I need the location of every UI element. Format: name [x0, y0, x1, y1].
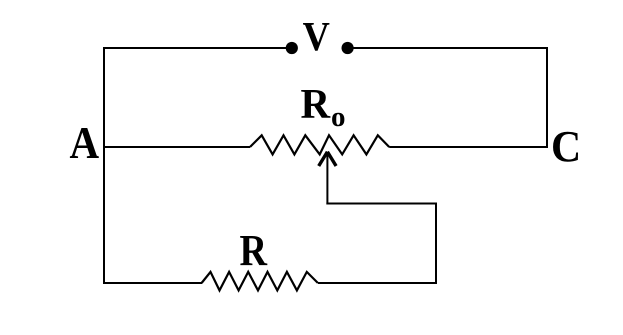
- wire: wiper horizontal run to the right: [326, 203, 437, 205]
- wiper arrowhead pointing up at R0: [319, 152, 336, 166]
- wire: bottom-left horizontal, from left vertical to resistor R left lead: [103, 282, 202, 284]
- wire: wiper arrow shaft, vertical: [326, 153, 328, 205]
- svg-text:R: R: [240, 225, 269, 274]
- svg-text:R: R: [301, 81, 331, 128]
- svg-text:A: A: [70, 119, 100, 168]
- node dot: voltmeter right terminal: [342, 42, 354, 54]
- svg-text:V: V: [303, 14, 330, 60]
- wire: top horizontal, left dot to top-left corner: [103, 47, 286, 49]
- wire: left vertical, node A branch (top-left corner down to bottom-left corner): [103, 47, 105, 284]
- wire: right vertical, down to node C: [546, 47, 548, 148]
- wire: wiper vertical drop to bottom wire: [435, 203, 437, 285]
- wire: top horizontal, right dot to top-right corner: [354, 47, 549, 49]
- resistor R zigzag body: [202, 272, 318, 291]
- wire: node A row, from left vertical to R_o left lead: [103, 146, 250, 148]
- wire: bottom-right horizontal, resistor R right lead to wiper drop: [318, 282, 437, 284]
- svg-text:C: C: [551, 123, 581, 171]
- node dot: voltmeter left terminal: [286, 42, 298, 54]
- potentiometer R0 zigzag body: [250, 135, 389, 154]
- svg-text:o: o: [331, 101, 346, 133]
- wire: node C row, from right vertical to R_o right lead: [389, 146, 548, 148]
